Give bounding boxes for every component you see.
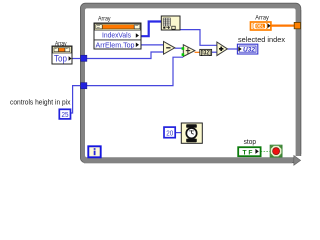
wire: Index Array output to add top input <box>180 30 217 46</box>
svg-text:Top: Top <box>54 54 67 64</box>
svg-text:20: 20 <box>166 128 173 137</box>
svg-text:controls height in pix: controls height in pix <box>10 99 71 106</box>
svg-text:25: 25 <box>62 110 69 119</box>
add function <box>217 42 228 56</box>
tunnel left upper (Top) <box>81 55 87 61</box>
constant 25 <box>59 109 70 119</box>
property node Array.Top (left) <box>52 46 72 64</box>
subtract function <box>164 42 175 55</box>
svg-text:Array: Array <box>98 16 111 23</box>
wire: divide output to I32 conversion (DBL orange) <box>195 51 200 53</box>
loop condition terminal (stop if true) <box>270 145 282 157</box>
wire: lower tunnel to divide bottom input <box>87 57 184 85</box>
tunnel left lower (25) <box>81 83 87 89</box>
svg-text:DBL: DBL <box>256 24 264 29</box>
iteration terminal i <box>88 146 100 157</box>
control terminal Array [DBL] <box>251 22 271 30</box>
wire: 20 constant to wait function <box>175 132 181 134</box>
svg-text:U32: U32 <box>243 48 256 54</box>
wire: Array control to right tunnel (array DBL orange thick) <box>271 25 295 27</box>
property node Array IndexVals / ArrElem.Top <box>94 23 141 49</box>
svg-text:selected index: selected index <box>238 35 285 44</box>
wire: 25 constant up to lower-left tunnel <box>71 86 82 113</box>
constant 20 <box>164 127 175 138</box>
wire: I32 conversion to add bottom input <box>212 51 217 53</box>
wire: Top property to left tunnel <box>72 58 81 60</box>
divide function <box>182 45 195 57</box>
svg-text:T F: T F <box>243 150 253 156</box>
indicator terminal U32 (selected index) <box>237 44 257 54</box>
wire: add output to selected index terminal <box>227 48 237 50</box>
wire: IndexVals to Index Array (thick array wire) <box>141 22 161 37</box>
Index Array function <box>161 16 180 30</box>
I32 conversion bullet <box>200 49 212 56</box>
tunnel right (Array out, orange) <box>294 22 300 28</box>
boolean control terminal stop (TF) <box>238 147 260 156</box>
wait until next ms multiple function <box>181 123 202 143</box>
wire: left tunnel to subtract bottom input <box>87 52 164 59</box>
wire: subtract output to divide top input <box>175 47 184 49</box>
svg-text:Array: Array <box>255 15 269 22</box>
svg-text:IndexVals: IndexVals <box>102 31 131 40</box>
svg-text:[I32]: [I32] <box>201 51 211 57</box>
wire: ArrElem.Top to subtract top input <box>141 44 164 46</box>
while loop border <box>80 3 303 166</box>
wire: stop terminal to loop condition (boolean dashed) <box>261 151 271 153</box>
svg-text:stop: stop <box>244 139 256 146</box>
svg-text:ArrElem.Top: ArrElem.Top <box>96 40 135 49</box>
